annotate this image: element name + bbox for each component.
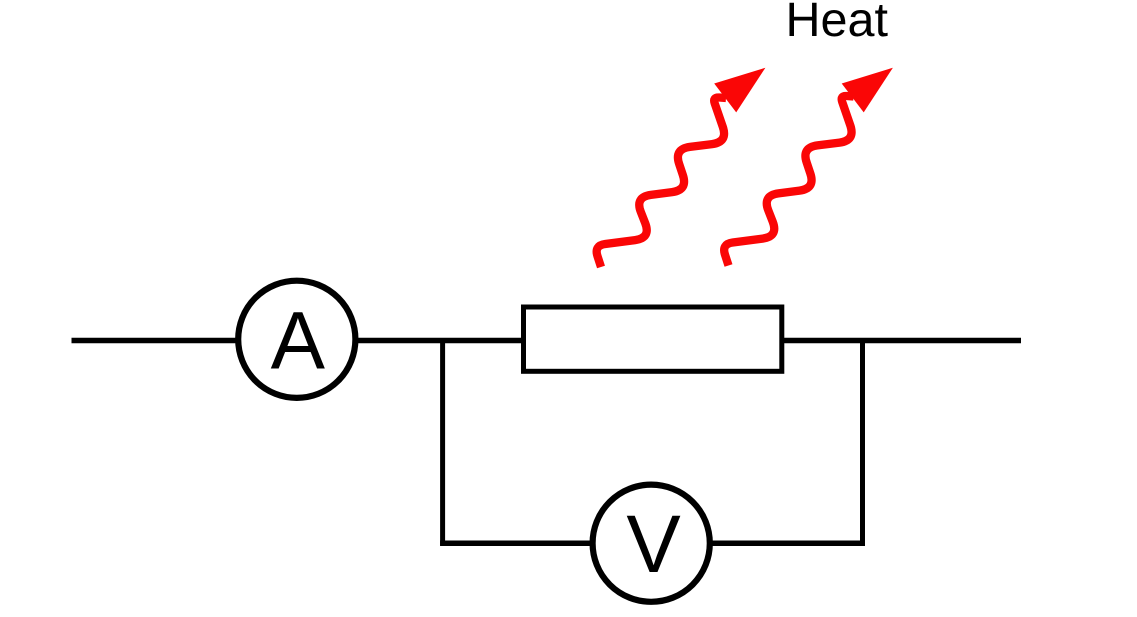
svg-text:Heat: Heat [786,0,889,47]
ammeter A1 circle [238,281,355,398]
wire: right branch down [860,338,865,546]
wire: left lead [72,338,238,344]
wire: voltmeter to right branch [709,541,865,547]
svg-text:V: V [626,499,680,590]
heat arrow 1 head [714,68,765,113]
wire: bottom rail left to voltmeter [440,541,594,547]
resistor R1 (heating element) [524,307,782,371]
heat wavy arrow 2 (squiggle) [724,96,853,266]
wire: left branch down (junction to bottom rail) [440,338,445,546]
wire: resistor to right end [784,338,1021,344]
heat arrow 2 head [842,68,893,113]
voltmeter V1 circle [593,485,710,602]
heat wavy arrow 1 (squiggle) [597,97,726,267]
svg-text:A: A [271,296,326,387]
wire: ammeter to resistor [357,338,523,344]
